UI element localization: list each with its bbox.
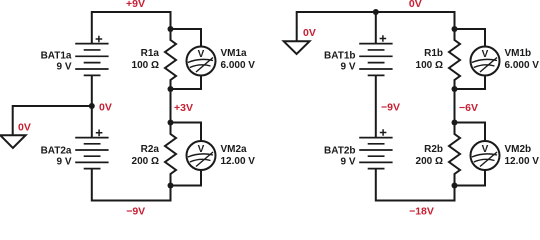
wire bottom right circuit bbox=[376, 169, 455, 201]
wire bottom left circuit bbox=[92, 169, 171, 201]
svg-text:R2a: R2a bbox=[141, 144, 160, 155]
svg-text:200 Ω: 200 Ω bbox=[132, 156, 159, 167]
wire voltmeter VM2a top bbox=[171, 123, 202, 142]
wire voltmeter VM1a bottom bbox=[171, 76, 202, 90]
svg-text:6.000 V: 6.000 V bbox=[505, 60, 540, 71]
resistor R1a bbox=[165, 29, 176, 89]
ground left bbox=[0, 135, 25, 148]
wire voltmeter VM2b top bbox=[455, 123, 486, 142]
svg-text:0V: 0V bbox=[18, 122, 31, 134]
svg-text:+9V: +9V bbox=[126, 0, 145, 10]
svg-text:200 Ω: 200 Ω bbox=[416, 156, 443, 167]
node 0V junction a bbox=[89, 103, 95, 109]
svg-text:0V: 0V bbox=[303, 27, 316, 39]
svg-text:VM2b: VM2b bbox=[505, 144, 532, 155]
wire voltmeter VM1b bottom bbox=[455, 76, 486, 90]
node VM1b top junction bbox=[452, 26, 458, 32]
wire voltmeter VM2b bottom bbox=[455, 170, 486, 186]
svg-text:V: V bbox=[482, 49, 489, 60]
svg-text:9 V: 9 V bbox=[56, 61, 71, 72]
wire resistor branch b middle bbox=[454, 89, 456, 123]
svg-text:−18V: −18V bbox=[409, 205, 434, 215]
battery BAT2a bbox=[75, 130, 108, 169]
wire voltmeter VM2a bottom bbox=[171, 170, 202, 186]
svg-text:100 Ω: 100 Ω bbox=[416, 60, 443, 71]
voltmeter VM2b bbox=[471, 141, 500, 170]
node VM2a top junction bbox=[168, 120, 174, 126]
wire battery branch a middle bbox=[91, 75, 93, 137]
svg-text:9 V: 9 V bbox=[340, 157, 355, 168]
svg-text:BAT2b: BAT2b bbox=[324, 146, 355, 157]
svg-text:BAT1b: BAT1b bbox=[324, 51, 355, 62]
wire ground connection a bbox=[13, 106, 92, 135]
svg-text:R1b: R1b bbox=[424, 48, 443, 59]
wire voltmeter VM1a top bbox=[171, 29, 202, 47]
svg-text:0V: 0V bbox=[409, 0, 422, 10]
node top junction b bbox=[373, 9, 379, 15]
voltmeter VM1a bbox=[187, 47, 216, 76]
svg-text:−9V: −9V bbox=[126, 205, 145, 215]
node VM2b top junction bbox=[452, 120, 458, 126]
svg-text:R2b: R2b bbox=[424, 144, 443, 155]
svg-text:VM1b: VM1b bbox=[505, 48, 532, 59]
svg-text:100 Ω: 100 Ω bbox=[132, 60, 159, 71]
svg-text:R1a: R1a bbox=[141, 48, 160, 59]
wire resistor branch a middle bbox=[170, 89, 172, 123]
resistor R1b bbox=[449, 29, 460, 89]
svg-text:0V: 0V bbox=[99, 102, 112, 114]
svg-text:6.000 V: 6.000 V bbox=[221, 60, 256, 71]
svg-text:12.00 V: 12.00 V bbox=[505, 156, 540, 167]
svg-text:VM1a: VM1a bbox=[221, 48, 248, 59]
wire voltmeter VM1b top bbox=[455, 29, 486, 47]
svg-text:V: V bbox=[482, 144, 489, 155]
node VM1a bottom junction bbox=[168, 86, 174, 92]
node VM1b bottom junction bbox=[452, 86, 458, 92]
wire battery branch b middle bbox=[375, 75, 377, 137]
wire battery branch b top lead bbox=[375, 12, 377, 44]
battery BAT1a bbox=[75, 36, 108, 76]
svg-text:9 V: 9 V bbox=[340, 61, 355, 72]
node VM2b bottom junction bbox=[452, 183, 458, 189]
node VM1a top junction bbox=[168, 26, 174, 32]
voltmeter VM1b bbox=[471, 47, 500, 76]
wire top left circuit bbox=[92, 12, 171, 44]
svg-text:V: V bbox=[198, 49, 205, 60]
svg-text:BAT2a: BAT2a bbox=[41, 146, 72, 157]
svg-text:12.00 V: 12.00 V bbox=[221, 156, 256, 167]
battery BAT2b bbox=[359, 129, 392, 168]
svg-text:9 V: 9 V bbox=[56, 157, 71, 168]
battery BAT1b bbox=[359, 35, 392, 75]
svg-text:−6V: −6V bbox=[459, 102, 478, 114]
svg-text:BAT1a: BAT1a bbox=[41, 51, 72, 62]
svg-text:−9V: −9V bbox=[381, 102, 400, 114]
svg-text:VM2a: VM2a bbox=[221, 144, 248, 155]
ground right bbox=[284, 41, 310, 54]
wire top right circuit bbox=[297, 12, 455, 41]
voltmeter VM2a bbox=[187, 141, 216, 170]
node VM2a bottom junction bbox=[168, 183, 174, 189]
svg-text:V: V bbox=[198, 144, 205, 155]
resistor R2a bbox=[165, 123, 176, 186]
svg-text:+3V: +3V bbox=[174, 102, 193, 114]
resistor R2b bbox=[449, 123, 460, 186]
